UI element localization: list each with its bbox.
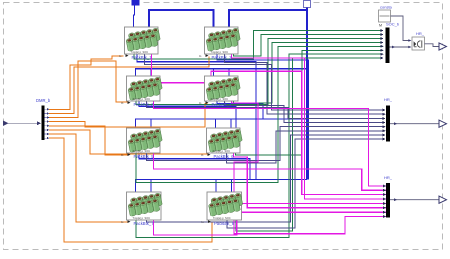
wire orange o7 to PackBtk_7 [49,134,129,222]
wire M2 to Out2 [390,123,439,125]
battery block PackBtk_8 [202,192,244,226]
svg-text:PackBtk_3: PackBtk_3 [134,102,155,107]
mux M2 bar [386,106,390,142]
wire blue top trunk row1 [149,10,214,27]
wire blue from square to PackBtk_1 port1 [134,5,135,27]
battery block PackBtk_5 [121,128,163,159]
battery block PackBtk_4 [199,76,241,107]
wire green g3 [136,39,383,105]
wire M3 to Out3 [390,199,439,201]
wire magenta m1 [152,54,387,195]
wire M1 to HR1 [390,46,410,48]
wire navy n5 [147,127,386,161]
annotation tag top [304,1,311,8]
input port In1 [3,121,9,127]
svg-text:Tmp(a) p SOC: Tmp(a) p SOC [213,216,231,220]
wire magenta m6 [234,153,387,208]
svg-text:M: M [379,24,382,28]
goto tag blue square [132,0,140,6]
wire navy n3 [147,101,386,118]
wire input to demux [9,122,41,124]
wire navy n1 [145,54,386,110]
output port Out3 [439,196,447,203]
svg-text:PackBtk_8: PackBtk_8 [214,221,235,226]
constant block consta [379,10,391,22]
wire blue inter-row 4 [217,101,263,119]
svg-text:Tmp(a) p SOC: Tmp(a) p SOC [133,216,151,220]
svg-text:consta: consta [380,5,393,10]
wire navy n2 [225,54,386,114]
wire green g4 [234,42,384,103]
wire orange o5 to PackBtk_5 [49,126,129,155]
wire green g1 [134,31,383,59]
wire blue inter-row 2 [217,54,309,180]
svg-text:PackBtk_4: PackBtk_4 [212,102,233,107]
wire green g2 [234,35,384,57]
battery block PackBtk_6 [201,128,243,159]
svg-text:HR_: HR_ [384,97,393,102]
mux M1 bar [386,28,390,64]
wire magenta m3 [154,101,387,186]
wire orange o8 to PackBtk_8 [49,138,212,242]
svg-text:Tmp(a) p SOC: Tmp(a) p SOC [211,97,229,101]
svg-text:PackBtk_5: PackBtk_5 [134,154,155,159]
svg-text:PackBtk_6: PackBtk_6 [214,154,235,159]
wire blue feed row2 [136,69,308,76]
svg-text:Tmp(a) p SOC: Tmp(a) p SOC [213,149,231,153]
wire orange o1 to PackBtk_1 [49,56,124,110]
battery block PackBtk_3 [121,76,163,107]
svg-text:DMR_b: DMR_b [36,98,51,103]
wire magenta m5 [154,153,387,190]
svg-text:Tmp(a) p SOC: Tmp(a) p SOC [133,97,151,101]
wire const to HR1 [391,16,410,41]
svg-text:PackBtk_1: PackBtk_1 [132,55,153,60]
wire blue feed row3 [136,119,308,128]
wire blue inter-row 1 [137,54,256,180]
wire blue inter-row 3 [139,101,236,152]
svg-text:Tmp(a) p SOC: Tmp(a) p SOC [211,50,229,54]
svg-text:PackBtk_7: PackBtk_7 [134,221,155,226]
wire green g6 [236,50,384,155]
battery block PackBtk_7 [121,192,163,226]
battery block PackBtk_2 [199,27,241,60]
svg-text:SOC_b: SOC_b [386,22,400,27]
battery block PackBtk_1 [119,27,161,60]
wire green g7 [136,54,383,238]
wire green g8 [236,58,383,231]
wire blue main vertical trunk [306,8,308,180]
wire navy n8 [227,139,385,228]
wire green g5 [136,46,383,182]
svg-text:Tmp(a) p SOC: Tmp(a) p SOC [133,149,151,153]
wire orange o2 to PackBtk_2 [49,57,209,114]
svg-text:PackBtk_2: PackBtk_2 [212,55,233,60]
wire navy n6 [227,131,386,163]
wire orange o6 to PackBtk_6 [49,130,208,155]
wire magenta m4 [232,101,387,203]
output port Out2 [439,120,447,127]
wire orange o3 to PackBtk_3 [49,61,129,118]
wire blue inter-row 5 [139,153,250,180]
wire blue feed row4 [136,180,308,193]
mux input arrowheads [381,29,384,32]
wire orange o4 to PackBtk_4 [49,104,208,128]
svg-text:Tmp(a) p SOC: Tmp(a) p SOC [131,50,149,54]
demux DMR bar [42,106,45,141]
wire magenta m7 [154,212,387,235]
wire navy n7 [147,135,386,222]
wire HR1 to Out1 [425,44,439,47]
wire magenta m2 [232,54,387,199]
output port Out1 [439,43,447,50]
mux M3 bar [386,183,390,218]
block HR1 [412,37,425,50]
svg-text:HR_: HR_ [384,175,393,180]
svg-text:HR_: HR_ [416,31,425,36]
wire blue top trunk right [229,10,307,27]
wire magenta m8 [234,217,386,234]
wire navy n4 [225,101,386,123]
